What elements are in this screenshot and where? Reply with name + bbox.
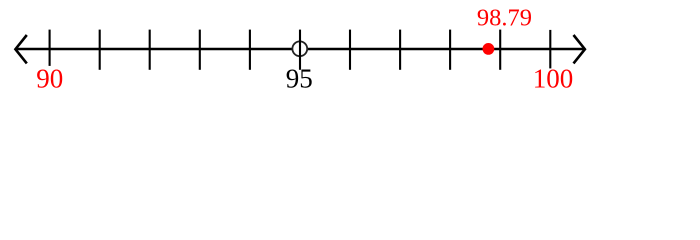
tick 96 (349, 30, 351, 70)
tick 99 (499, 30, 501, 70)
tick 91 (99, 30, 101, 70)
number line axis (16, 48, 584, 50)
tick 94 (249, 30, 251, 70)
tick 92 (149, 30, 151, 70)
open circle at 95 (292, 41, 307, 56)
tick 100 (549, 30, 551, 69)
tick 90 (49, 30, 51, 66)
tick 97 (399, 30, 401, 70)
tick 98 (449, 30, 451, 70)
tick 95 (drawn over circle) (299, 30, 301, 70)
red point at 98.79 (483, 43, 495, 55)
svg-text:100: 100 (533, 64, 574, 94)
svg-text:95: 95 (286, 64, 313, 94)
svg-text:98.79: 98.79 (477, 4, 532, 31)
left arrowhead (15, 35, 26, 63)
right arrowhead (574, 35, 585, 63)
svg-text:90: 90 (36, 64, 63, 94)
tick 93 (199, 30, 201, 70)
